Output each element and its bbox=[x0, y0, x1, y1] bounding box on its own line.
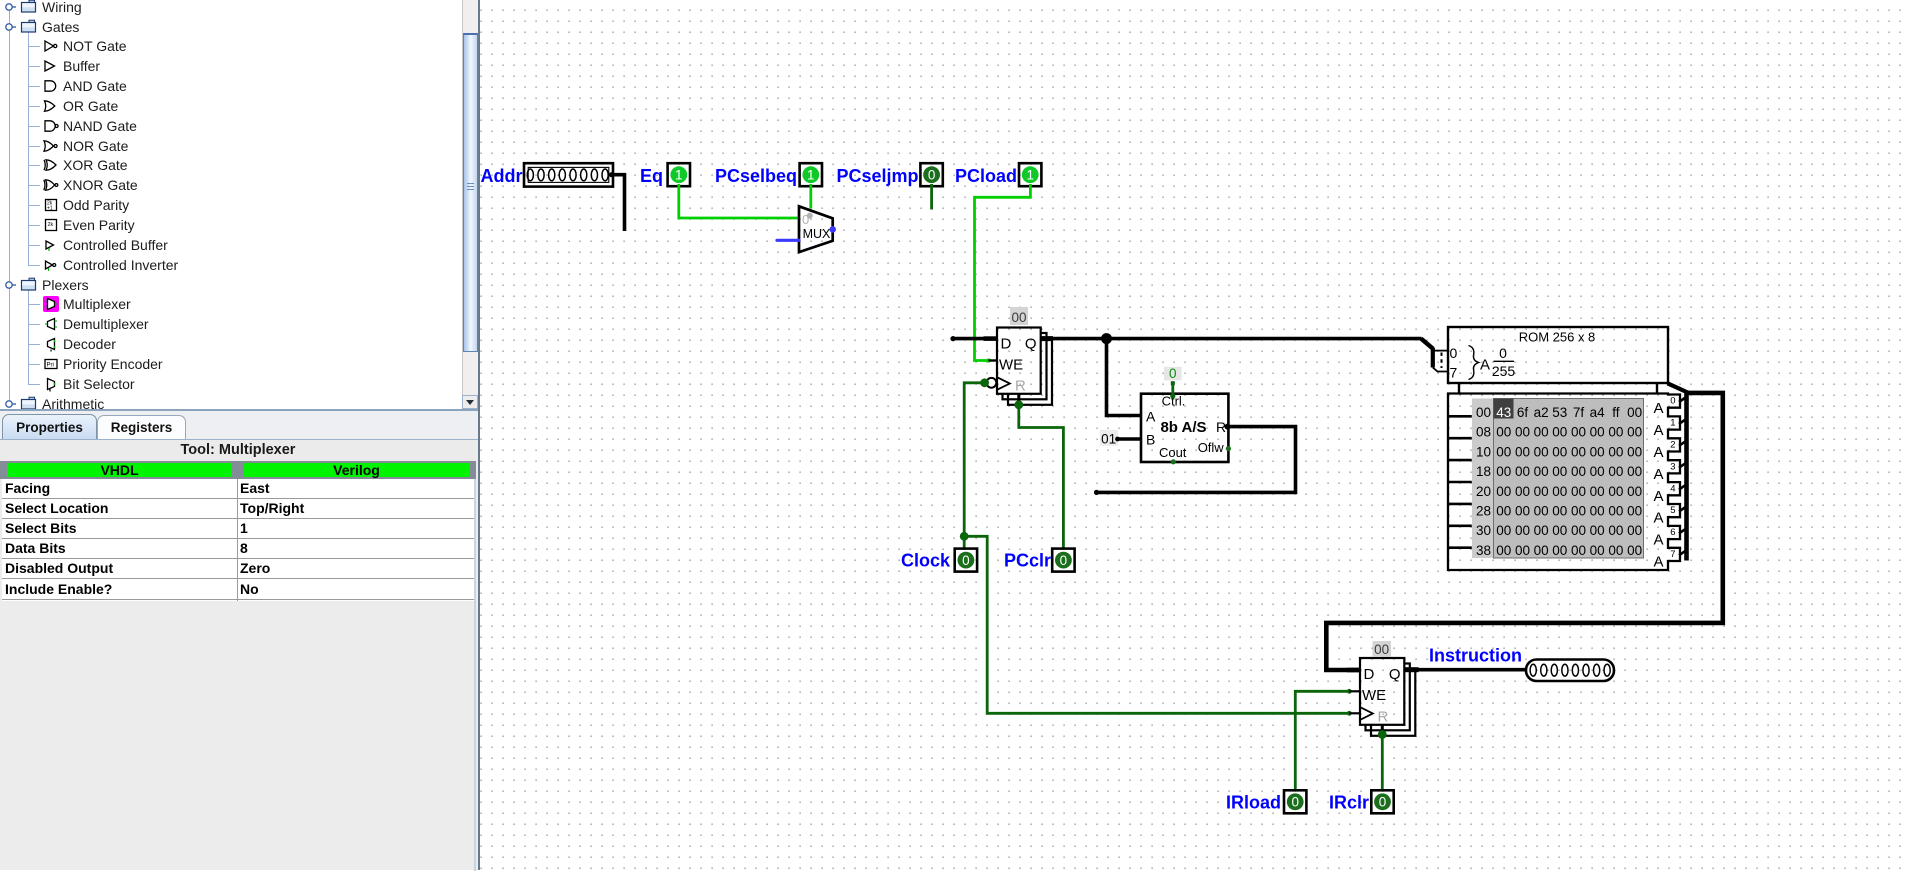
svg-text:00: 00 bbox=[1552, 464, 1567, 479]
constant 01 on adder B bbox=[1100, 430, 1118, 447]
wire PC R to PCclr bbox=[1019, 405, 1064, 549]
svg-text:00: 00 bbox=[1627, 405, 1642, 420]
svg-text:00: 00 bbox=[1627, 504, 1642, 519]
wire PCselbeq to MUX input0 bbox=[809, 184, 812, 209]
splitter ROM address fan bbox=[1421, 339, 1448, 372]
svg-text:Pri: Pri bbox=[47, 362, 54, 368]
svg-text:18: 18 bbox=[1476, 464, 1491, 479]
svg-text:00: 00 bbox=[1627, 425, 1642, 440]
svg-text:00: 00 bbox=[1534, 523, 1549, 538]
svg-text:D: D bbox=[1364, 666, 1375, 683]
svg-text:01: 01 bbox=[1101, 431, 1116, 446]
ROM output tabs bbox=[1653, 396, 1687, 571]
svg-text:A: A bbox=[1480, 357, 1490, 374]
wire PC Q bus bbox=[1041, 337, 1422, 341]
input pin Addr (8-bit) bbox=[524, 163, 613, 186]
svg-text:00: 00 bbox=[1571, 543, 1586, 558]
svg-text:PCselbeq: PCselbeq bbox=[715, 166, 797, 186]
svg-text:0: 0 bbox=[1499, 345, 1507, 361]
svg-text:00: 00 bbox=[1374, 642, 1389, 657]
ROM data table bbox=[1472, 399, 1644, 559]
svg-text:00: 00 bbox=[1608, 484, 1623, 499]
wire adder Ctrl stub bbox=[1171, 383, 1174, 396]
input pin IRload bbox=[1284, 790, 1306, 813]
svg-text:a2: a2 bbox=[1534, 405, 1549, 420]
wire PC D input stub bbox=[953, 337, 998, 341]
svg-text:00: 00 bbox=[1590, 444, 1605, 459]
svg-text:A: A bbox=[1146, 409, 1156, 425]
wire IRload to IR WE bbox=[1295, 691, 1349, 790]
svg-text:4: 4 bbox=[1670, 483, 1675, 494]
svg-text:0: 0 bbox=[928, 168, 936, 183]
svg-text:A: A bbox=[1653, 554, 1663, 571]
svg-text:10: 10 bbox=[1476, 444, 1491, 459]
svg-text:00: 00 bbox=[1571, 504, 1586, 519]
wire bus branch to adder A bbox=[1107, 339, 1142, 416]
svg-text:WE: WE bbox=[1362, 687, 1386, 704]
svg-text:00: 00 bbox=[1552, 523, 1567, 538]
input pin Clock bbox=[955, 549, 977, 572]
wire PCload to PC register WE bbox=[975, 184, 1031, 361]
svg-text:00: 00 bbox=[1590, 425, 1605, 440]
svg-text:0: 0 bbox=[1450, 345, 1458, 361]
register IR value tag 00 bbox=[1373, 641, 1392, 657]
svg-text:00: 00 bbox=[1496, 504, 1511, 519]
svg-text:R: R bbox=[1378, 709, 1389, 726]
ROM box connectors bbox=[1458, 383, 1460, 394]
wire PCseljmp (dangling) bbox=[930, 184, 933, 210]
svg-text:00: 00 bbox=[1608, 504, 1623, 519]
svg-text:R: R bbox=[1015, 378, 1026, 395]
svg-text:255: 255 bbox=[1492, 363, 1516, 379]
svg-text:Oflw: Oflw bbox=[1198, 440, 1225, 455]
multiplexer MUX bbox=[799, 206, 836, 252]
svg-text:IRclr: IRclr bbox=[1329, 793, 1369, 813]
svg-text:A: A bbox=[1653, 422, 1663, 439]
wire IR WE stub bbox=[1349, 690, 1360, 692]
svg-text:00: 00 bbox=[1534, 444, 1549, 459]
svg-text:08: 08 bbox=[1476, 425, 1491, 440]
svg-text:D: D bbox=[1001, 336, 1012, 353]
svg-text:00: 00 bbox=[1627, 484, 1642, 499]
svg-text:00: 00 bbox=[1534, 464, 1549, 479]
wire ROM output comb bus bbox=[1684, 393, 1689, 561]
svg-text:1: 1 bbox=[1670, 418, 1675, 429]
svg-text:00: 00 bbox=[1571, 523, 1586, 538]
svg-text:00: 00 bbox=[1515, 504, 1530, 519]
register PC value tag 00 bbox=[1010, 307, 1028, 325]
wire constant to B bbox=[1117, 437, 1141, 441]
svg-text:ROM 256 x 8: ROM 256 x 8 bbox=[1519, 330, 1596, 345]
svg-text:A: A bbox=[1653, 466, 1663, 483]
svg-text:00: 00 bbox=[1496, 444, 1511, 459]
svg-text:IRload: IRload bbox=[1226, 793, 1281, 813]
adder Ctrl value 0 bbox=[1164, 366, 1182, 381]
input pin IRclr bbox=[1371, 790, 1393, 813]
svg-text:A: A bbox=[1653, 444, 1663, 461]
svg-text:00: 00 bbox=[1627, 523, 1642, 538]
circuit canvas bbox=[480, 0, 1910, 870]
ROM 256x8 upper box bbox=[1448, 327, 1668, 383]
svg-text:00: 00 bbox=[1571, 425, 1586, 440]
svg-text:00: 00 bbox=[1496, 523, 1511, 538]
wire IR Q bus bbox=[1404, 668, 1526, 672]
svg-text:00: 00 bbox=[1608, 464, 1623, 479]
svg-text:1: 1 bbox=[807, 168, 815, 183]
svg-text:00: 00 bbox=[1515, 425, 1530, 440]
ROM lower box bbox=[1448, 394, 1680, 571]
svg-text:00: 00 bbox=[1571, 464, 1586, 479]
wire ROM to IR bus loop bbox=[1668, 383, 1689, 393]
svg-text:20: 20 bbox=[1476, 484, 1491, 499]
wire IR Q stacked stub bbox=[1404, 667, 1418, 672]
svg-text:0: 0 bbox=[1169, 366, 1177, 381]
svg-text:00: 00 bbox=[1571, 484, 1586, 499]
svg-text:00: 00 bbox=[1552, 543, 1567, 558]
svg-text:0: 0 bbox=[1060, 553, 1068, 568]
input pin PCload bbox=[1019, 163, 1041, 186]
svg-text:1: 1 bbox=[1026, 168, 1034, 183]
svg-text:MUX: MUX bbox=[803, 227, 831, 241]
svg-text:00: 00 bbox=[1627, 444, 1642, 459]
svg-text:00: 00 bbox=[1515, 464, 1530, 479]
svg-text:Clock: Clock bbox=[901, 551, 951, 571]
svg-text:0: 0 bbox=[1291, 795, 1299, 810]
svg-text:00: 00 bbox=[1515, 484, 1530, 499]
left explorer tree bbox=[0, 0, 462, 409]
svg-text:5: 5 bbox=[1670, 505, 1675, 516]
svg-text:7f: 7f bbox=[1573, 405, 1585, 420]
svg-text:A: A bbox=[1653, 532, 1663, 549]
input pin PCclr bbox=[1052, 549, 1074, 572]
wire PC R stub bbox=[1017, 394, 1020, 404]
svg-text:2: 2 bbox=[1670, 440, 1675, 451]
svg-text:8b A/S: 8b A/S bbox=[1160, 419, 1206, 436]
wire MUX input1 (floating) bbox=[777, 239, 799, 242]
svg-text:30: 30 bbox=[1476, 523, 1491, 538]
svg-text:A: A bbox=[1653, 510, 1663, 527]
svg-text:ff: ff bbox=[1612, 405, 1620, 420]
svg-text:+1: +1 bbox=[47, 206, 53, 212]
svg-text:Instruction: Instruction bbox=[1429, 646, 1522, 666]
ROM left row ticks bbox=[1448, 416, 1472, 547]
svg-text:00: 00 bbox=[1608, 523, 1623, 538]
wire IR R stub bbox=[1381, 725, 1384, 734]
svg-text:00: 00 bbox=[1627, 464, 1642, 479]
input pin PCselbeq bbox=[800, 163, 822, 186]
svg-text:00: 00 bbox=[1627, 543, 1642, 558]
svg-text:00: 00 bbox=[1496, 543, 1511, 558]
wire PC WE stub bbox=[989, 359, 998, 361]
wire adder R output (dangling) bbox=[1096, 427, 1296, 493]
svg-text:00: 00 bbox=[1011, 310, 1026, 325]
svg-text:00: 00 bbox=[1534, 504, 1549, 519]
svg-text:00: 00 bbox=[1552, 425, 1567, 440]
svg-text:00: 00 bbox=[1534, 484, 1549, 499]
svg-text:38: 38 bbox=[1476, 543, 1491, 558]
svg-text:A: A bbox=[1653, 488, 1663, 505]
svg-text:00: 00 bbox=[1534, 425, 1549, 440]
svg-text:Addr: Addr bbox=[481, 166, 523, 186]
svg-text:B: B bbox=[1146, 432, 1155, 448]
wire Eq to MUX select bbox=[679, 184, 798, 218]
svg-text:7: 7 bbox=[1450, 365, 1458, 381]
wire IR R to IRclr bbox=[1381, 735, 1384, 791]
svg-text:6f: 6f bbox=[1517, 405, 1529, 420]
output pin Instruction (8-bit) bbox=[1526, 660, 1614, 682]
svg-text:00: 00 bbox=[1552, 484, 1567, 499]
svg-text:00: 00 bbox=[1496, 425, 1511, 440]
arithmetic unit U1 8b A/S bbox=[1141, 393, 1231, 464]
svg-text:0: 0 bbox=[1670, 396, 1675, 407]
svg-text:00: 00 bbox=[1608, 425, 1623, 440]
svg-text:Cout: Cout bbox=[1159, 445, 1187, 460]
svg-text:00: 00 bbox=[1590, 523, 1605, 538]
svg-text:43: 43 bbox=[1496, 405, 1511, 420]
input pin PCseljmp bbox=[920, 163, 942, 186]
svg-text:00: 00 bbox=[1552, 444, 1567, 459]
svg-text:00: 00 bbox=[1590, 464, 1605, 479]
svg-text:00: 00 bbox=[1476, 405, 1491, 420]
svg-text:00: 00 bbox=[1496, 464, 1511, 479]
input pin Eq bbox=[668, 163, 690, 186]
svg-text:00: 00 bbox=[1515, 444, 1530, 459]
svg-text:WE: WE bbox=[999, 356, 1023, 373]
wire IR D stacked stub bbox=[1347, 668, 1361, 673]
wire Addr bus bbox=[611, 175, 625, 231]
junction on Q bus bbox=[1101, 333, 1112, 344]
svg-text:00: 00 bbox=[1496, 484, 1511, 499]
svg-text:a4: a4 bbox=[1590, 405, 1606, 420]
svg-text:Q: Q bbox=[1389, 666, 1401, 683]
svg-text:00: 00 bbox=[1515, 523, 1530, 538]
svg-text:PCclr: PCclr bbox=[1004, 551, 1051, 571]
wire IR clock stub bbox=[1349, 712, 1360, 714]
wire PC Q stacked stub bbox=[1041, 336, 1053, 341]
scrollbar bbox=[462, 0, 478, 409]
svg-text:A: A bbox=[1653, 400, 1663, 417]
svg-text:00: 00 bbox=[1552, 504, 1567, 519]
svg-text:3: 3 bbox=[1670, 461, 1675, 472]
svg-text:0: 0 bbox=[1379, 795, 1387, 810]
svg-text:00: 00 bbox=[1608, 543, 1623, 558]
svg-text:00: 00 bbox=[1571, 444, 1586, 459]
svg-text:00: 00 bbox=[1534, 543, 1549, 558]
svg-text:2k: 2k bbox=[48, 222, 54, 228]
svg-text:00: 00 bbox=[1515, 543, 1530, 558]
svg-text:PCseljmp: PCseljmp bbox=[836, 166, 918, 186]
svg-text:Q: Q bbox=[1025, 336, 1037, 353]
svg-text:00: 00 bbox=[1590, 504, 1605, 519]
svg-text:53: 53 bbox=[1552, 405, 1567, 420]
svg-text:00: 00 bbox=[1608, 444, 1623, 459]
svg-text:Eq: Eq bbox=[640, 166, 663, 186]
svg-text:6: 6 bbox=[1670, 527, 1675, 538]
wire Clock net bbox=[964, 383, 1349, 714]
svg-text:7: 7 bbox=[1670, 549, 1675, 560]
svg-text:28: 28 bbox=[1476, 504, 1491, 519]
svg-text:PCload: PCload bbox=[955, 166, 1017, 186]
svg-text:00: 00 bbox=[1590, 543, 1605, 558]
svg-text:1: 1 bbox=[675, 168, 683, 183]
svg-text:00: 00 bbox=[1590, 484, 1605, 499]
svg-text:0: 0 bbox=[962, 553, 970, 568]
